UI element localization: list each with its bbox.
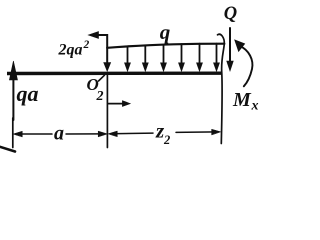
distributed load arrow 5 bbox=[179, 44, 185, 71]
distributed load line q bbox=[107, 44, 224, 48]
svg-text:Q: Q bbox=[224, 4, 237, 24]
distributed load arrow 3 bbox=[142, 46, 148, 71]
dimension line a segment right bbox=[66, 133, 100, 135]
dimension line z2 segment left bbox=[111, 132, 154, 135]
distributed load arrow 2 bbox=[125, 47, 131, 71]
dimension z2 right arrowhead bbox=[212, 129, 221, 135]
svg-text:2qa: 2qa bbox=[58, 42, 83, 59]
distributed load arrow 7 bbox=[214, 44, 220, 72]
svg-text:x: x bbox=[251, 99, 259, 114]
force Q arrow bbox=[227, 28, 234, 71]
extension line right lower part bbox=[221, 44, 224, 144]
distributed load arrow 6 bbox=[197, 44, 203, 72]
stray mark bottom left bbox=[0, 147, 15, 152]
force qa arrow bbox=[9, 61, 17, 120]
svg-text:2: 2 bbox=[83, 39, 90, 51]
extension line left bbox=[12, 118, 14, 148]
dimension a right arrowhead bbox=[98, 131, 107, 137]
dimension line z2 segment right bbox=[176, 131, 218, 134]
moment Mx curved arrow bbox=[235, 40, 253, 86]
dimension line a segment left bbox=[16, 133, 53, 135]
extension line right (wavy) bbox=[218, 34, 225, 44]
svg-text:q: q bbox=[160, 20, 171, 44]
svg-text:qa: qa bbox=[17, 81, 39, 106]
beam bbox=[7, 71, 222, 75]
svg-text:2: 2 bbox=[163, 133, 170, 147]
extension line middle bbox=[106, 76, 108, 148]
node O2 slash tick bbox=[99, 75, 105, 81]
moment 2qa^2 bent arrow bbox=[88, 32, 110, 72]
distributed load arrow 4 bbox=[161, 45, 167, 72]
z axis arrow at O2 bbox=[108, 101, 130, 107]
svg-text:M: M bbox=[232, 89, 252, 111]
dimension z2 left arrowhead bbox=[108, 131, 117, 137]
dimension a left arrowhead bbox=[13, 131, 22, 137]
svg-text:a: a bbox=[54, 123, 64, 145]
svg-text:2: 2 bbox=[96, 89, 104, 104]
